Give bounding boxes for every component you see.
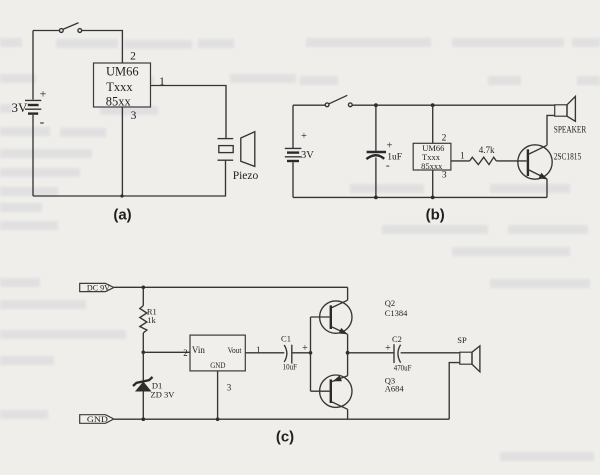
svg-text:Q2: Q2 — [385, 298, 395, 308]
wire C1 to base bus — [292, 352, 311, 354]
battery B1 3V — [12, 31, 47, 197]
svg-text:470uF: 470uF — [394, 362, 412, 372]
svg-text:SPEAKER: SPEAKER — [554, 124, 587, 134]
svg-text:+: + — [386, 141, 392, 152]
svg-text:2SC1815: 2SC1815 — [554, 151, 582, 161]
node R1 top — [142, 286, 146, 290]
svg-text:1: 1 — [159, 76, 165, 88]
IC U2 UM66 — [413, 143, 451, 171]
IC U3 regulator — [190, 335, 245, 371]
wire pin1 to C1 — [245, 352, 284, 354]
capacitor C 1uF — [366, 105, 402, 197]
switch S2 — [293, 95, 352, 106]
wire speaker lower terminal — [449, 363, 460, 420]
switch S1 — [33, 23, 82, 33]
svg-text:-: - — [40, 115, 45, 130]
battery B2 3V — [285, 105, 314, 197]
IC U1 UM66 — [94, 63, 151, 109]
svg-text:ZD 3V: ZD 3V — [151, 390, 176, 400]
svg-text:1k: 1k — [147, 315, 156, 325]
bottom rail (c) — [114, 418, 449, 420]
svg-text:A684: A684 — [385, 384, 405, 394]
wire pin1 to piezo — [151, 86, 227, 139]
svg-text:DC 9V: DC 9V — [87, 283, 110, 292]
svg-text:1: 1 — [460, 152, 465, 162]
svg-text:+: + — [40, 87, 47, 101]
wire node to pin2 — [143, 351, 190, 353]
node pin3 bottom — [431, 196, 435, 200]
svg-text:Piezo: Piezo — [233, 170, 259, 182]
svg-text:GND: GND — [87, 415, 108, 424]
node cap bottom — [374, 196, 378, 200]
svg-text:SP: SP — [457, 335, 467, 345]
svg-text:3: 3 — [131, 110, 137, 122]
svg-text:2: 2 — [442, 133, 447, 143]
wire emitter down — [546, 179, 548, 197]
svg-text:85xx: 85xx — [106, 95, 132, 109]
node base bus — [309, 351, 313, 355]
svg-text:UM66: UM66 — [106, 65, 139, 79]
node pin2 top — [431, 103, 435, 107]
node output — [346, 351, 350, 355]
wire IC gnd pin — [217, 371, 219, 419]
svg-text:C2: C2 — [392, 334, 402, 344]
svg-text:3V: 3V — [301, 150, 314, 161]
svg-text:85xxx: 85xxx — [421, 161, 443, 171]
svg-text:4.7k: 4.7k — [479, 145, 495, 155]
svg-text:+: + — [301, 131, 307, 142]
svg-text:Vout: Vout — [228, 345, 242, 355]
junction pin3/bottom — [120, 194, 123, 197]
svg-text:3: 3 — [442, 170, 447, 180]
bottom rail (b) — [293, 196, 547, 198]
wire node to C2 — [348, 352, 394, 354]
node IC gnd bottom — [216, 417, 220, 421]
wire Q3 collector down — [347, 409, 349, 419]
svg-text:C1384: C1384 — [385, 308, 408, 318]
net tag DC 9V — [80, 283, 114, 292]
svg-text:10uF: 10uF — [283, 361, 298, 371]
svg-text:-: - — [386, 158, 390, 172]
zener D1 ZD 3V — [133, 352, 175, 419]
speaker LS1 — [554, 96, 587, 134]
svg-text:Txxx: Txxx — [106, 80, 133, 94]
svg-text:3: 3 — [227, 382, 232, 392]
svg-text:GND: GND — [210, 361, 225, 370]
svg-text:2: 2 — [183, 348, 188, 358]
wire resistor to base — [496, 160, 526, 162]
node D1 bottom — [142, 417, 146, 421]
wire pin2 — [432, 105, 434, 143]
svg-text:(b): (b) — [426, 207, 445, 224]
resistor R1 1k — [140, 287, 157, 352]
wire pin3 — [432, 170, 434, 197]
wire collector to speaker — [547, 115, 555, 145]
net tag GND — [80, 415, 114, 424]
svg-text:C1: C1 — [281, 333, 291, 343]
resistor R 4.7k — [470, 145, 497, 165]
capacitor C2 470uF — [385, 334, 412, 372]
wire pin3 down — [121, 107, 123, 196]
top rail (b) — [352, 104, 555, 106]
svg-text:(c): (c) — [276, 429, 294, 446]
svg-text:(a): (a) — [113, 207, 131, 224]
svg-text:3V: 3V — [12, 100, 29, 115]
wire switch to pin 2 — [82, 31, 123, 64]
node cap top — [374, 103, 378, 107]
wire C2 to speaker — [401, 352, 460, 354]
base bus wire — [310, 317, 312, 391]
wire node to Q3 emitter — [347, 353, 349, 376]
svg-text:2: 2 — [130, 51, 136, 63]
svg-text:+: + — [385, 343, 391, 354]
svg-text:Vin: Vin — [192, 345, 205, 355]
wire pin1 to resistor — [451, 160, 470, 162]
wire Q2 emitter to node — [347, 334, 349, 353]
wire rail corner to Q2 collector — [347, 287, 349, 300]
bottom wire — [33, 160, 226, 196]
capacitor C1 10uF — [281, 333, 308, 371]
speaker SP — [457, 335, 480, 372]
svg-text:1: 1 — [256, 345, 261, 355]
transistor Q2 C1384 — [311, 298, 409, 335]
node mid — [142, 351, 146, 355]
top rail (c) — [114, 286, 348, 288]
transistor Q1 2SC1815 — [518, 145, 582, 180]
transistor Q3 A684 — [311, 375, 405, 409]
piezo element — [218, 132, 259, 182]
